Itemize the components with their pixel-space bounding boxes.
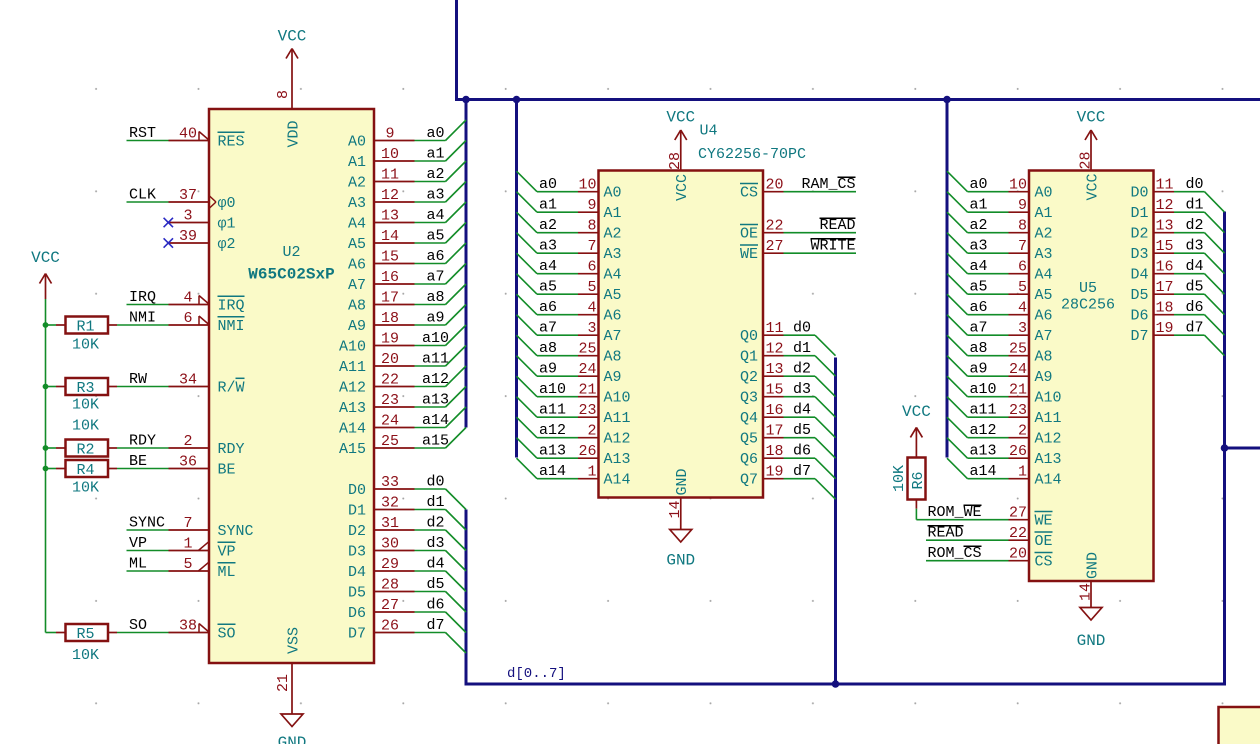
bus junction at (947,99.5) xyxy=(943,96,951,104)
svg-text:d6: d6 xyxy=(1185,299,1203,316)
svg-text:CY62256-70PC: CY62256-70PC xyxy=(698,146,806,163)
bus entry d5 to d-bus xyxy=(446,592,467,613)
pin 7 (SYNC) of U2 xyxy=(169,515,254,540)
bus a[0..15] vertical from top edge xyxy=(457,0,467,100)
net label a0 at U4 xyxy=(539,176,557,193)
pin 26 (A13) of U5 xyxy=(1009,443,1062,468)
svg-text:a11: a11 xyxy=(422,351,449,368)
wire R6 to ROM_WE xyxy=(915,509,917,520)
svg-text:U2: U2 xyxy=(282,244,300,261)
power symbol VCC above R6 xyxy=(902,403,931,458)
svg-text:12: 12 xyxy=(1156,197,1174,214)
svg-text:8: 8 xyxy=(587,218,596,235)
svg-text:A6: A6 xyxy=(348,257,366,274)
bus entry d4 from U5 xyxy=(1205,274,1225,295)
power symbol VCC above U4 xyxy=(666,109,695,151)
bus entry a6 to a-bus xyxy=(446,243,467,264)
wire a11 from U2 xyxy=(415,365,446,367)
pin 9 (A1) of U4 xyxy=(578,197,622,222)
wire d0 from U5 xyxy=(1174,191,1205,193)
wire a7 to U4 xyxy=(537,334,578,336)
svg-text:OE: OE xyxy=(1035,533,1053,550)
svg-text:IRQ: IRQ xyxy=(218,298,245,315)
net label CLK xyxy=(129,187,156,204)
svg-text:A0: A0 xyxy=(604,185,622,202)
wire a7 from U2 xyxy=(415,283,446,285)
pin 11 (Q0) of U4 xyxy=(740,320,784,345)
pin 1 (A14) of U5 xyxy=(1009,464,1062,489)
net label a4 at U5 xyxy=(970,258,988,275)
net label a0 at U5 xyxy=(970,176,988,193)
svg-text:10K: 10K xyxy=(72,337,99,354)
bus vertical d-bus right of U4 xyxy=(834,358,837,685)
svg-text:13: 13 xyxy=(381,208,399,225)
svg-text:a4: a4 xyxy=(426,207,444,224)
pin 8 (VDD) of U2 xyxy=(275,69,302,148)
bus horizontal top rail xyxy=(455,98,1260,101)
wire ROM_WE xyxy=(916,519,1008,521)
svg-text:7: 7 xyxy=(1018,238,1027,255)
wire d2 from U4 xyxy=(784,375,816,377)
svg-text:6: 6 xyxy=(1018,259,1027,276)
net label a1 at U5 xyxy=(970,197,988,214)
svg-text:READ: READ xyxy=(819,217,855,234)
wire a2 from U2 xyxy=(415,181,446,183)
svg-text:U4: U4 xyxy=(700,123,718,140)
pin 39 (φ2) of U2 xyxy=(169,228,236,253)
wire SYNC xyxy=(127,529,169,531)
bus entry a3 to U4 xyxy=(517,233,538,254)
svg-text:28: 28 xyxy=(667,152,684,170)
bus entry a5 to U5 xyxy=(947,274,968,295)
svg-text:VP: VP xyxy=(129,535,147,552)
wire R4 to U2 BE xyxy=(117,468,169,470)
svg-text:10: 10 xyxy=(1009,177,1027,194)
svg-text:a1: a1 xyxy=(426,146,444,163)
power symbol VCC above U2 xyxy=(278,28,307,69)
svg-text:a11: a11 xyxy=(539,402,566,419)
resistor R6 10K xyxy=(891,458,927,509)
svg-text:D0: D0 xyxy=(348,482,366,499)
pin 3 (A7) of U4 xyxy=(578,320,622,345)
pin 2 (A12) of U5 xyxy=(1009,423,1062,448)
svg-text:A14: A14 xyxy=(1035,472,1062,489)
wire R2 to U2 RDY xyxy=(117,447,169,449)
svg-text:d[0..7]: d[0..7] xyxy=(507,666,566,682)
svg-text:a12: a12 xyxy=(422,371,449,388)
svg-text:d4: d4 xyxy=(793,402,811,419)
power symbol VCC above U5 xyxy=(1077,109,1106,151)
wire a6 from U2 xyxy=(415,263,446,265)
wire RAM_CS xyxy=(784,191,857,193)
svg-text:13: 13 xyxy=(1156,218,1174,235)
wire d5 from U2 xyxy=(415,591,446,593)
svg-text:RST: RST xyxy=(129,125,156,142)
pin 23 (A11) of U5 xyxy=(1009,402,1062,427)
resistor R1 10K xyxy=(56,317,117,354)
net label READ xyxy=(819,217,855,234)
svg-text:a5: a5 xyxy=(426,228,444,245)
bus entry a1 to a-bus xyxy=(446,141,467,162)
svg-text:22: 22 xyxy=(766,218,784,235)
svg-text:CLK: CLK xyxy=(129,187,156,204)
pin 28 (D5) of U2 xyxy=(348,577,415,602)
ground symbol below U2 xyxy=(278,704,307,744)
wire d5 from U5 xyxy=(1174,293,1205,295)
bus vertical d-bus right of U5 xyxy=(1223,212,1226,686)
svg-text:33: 33 xyxy=(381,474,399,491)
ground symbol below U5 xyxy=(1077,602,1106,651)
pin 24 (A9) of U5 xyxy=(1009,361,1053,386)
pin 7 (A3) of U4 xyxy=(578,238,622,263)
pin 12 (A3) of U2 xyxy=(348,187,415,212)
svg-text:R5: R5 xyxy=(76,626,94,643)
svg-text:4: 4 xyxy=(587,300,596,317)
bus entry a2 to a-bus xyxy=(446,161,467,182)
svg-text:A5: A5 xyxy=(1035,287,1053,304)
svg-text:2: 2 xyxy=(1018,423,1027,440)
svg-text:8: 8 xyxy=(1018,218,1027,235)
wire a3 from U2 xyxy=(415,201,446,203)
svg-text:a14: a14 xyxy=(422,412,449,429)
net label a12 xyxy=(422,371,449,388)
pin 40 (RES) of U2 xyxy=(169,126,245,151)
pin 13 (A4) of U2 xyxy=(348,208,415,233)
svg-text:A13: A13 xyxy=(339,400,366,417)
wire a4 from U2 xyxy=(415,222,446,224)
net label a5 at U4 xyxy=(539,279,557,296)
net label d7 at U4 xyxy=(793,463,811,480)
svg-text:a10: a10 xyxy=(539,381,566,398)
net label a6 xyxy=(426,248,444,265)
bus vertical a-bus left of U4 xyxy=(515,100,518,458)
net label d7 at U5 xyxy=(1185,320,1203,337)
svg-text:a2: a2 xyxy=(539,217,557,234)
svg-text:4: 4 xyxy=(183,290,192,307)
svg-text:16: 16 xyxy=(1156,259,1174,276)
svg-text:1: 1 xyxy=(1018,464,1027,481)
net label ROM_CS xyxy=(928,545,982,562)
pin 9 (A0) of U2 xyxy=(348,126,415,151)
net label a9 at U4 xyxy=(539,361,557,378)
partial component body bottom-right corner xyxy=(1219,707,1260,744)
net label NMI xyxy=(129,310,156,327)
bus vertical a-bus left of U2 entries xyxy=(465,100,468,428)
svg-text:A13: A13 xyxy=(604,451,631,468)
net label a11 at U5 xyxy=(970,402,997,419)
svg-text:10K: 10K xyxy=(72,418,99,435)
svg-text:ROM_CS: ROM_CS xyxy=(928,545,982,562)
svg-text:a1: a1 xyxy=(970,197,988,214)
net label a7 at U5 xyxy=(970,320,988,337)
svg-text:φ2: φ2 xyxy=(218,236,236,253)
net label READ xyxy=(928,525,964,542)
ground symbol below U4 xyxy=(666,518,695,570)
svg-text:12: 12 xyxy=(766,341,784,358)
svg-text:21: 21 xyxy=(1009,382,1027,399)
pin 19 (A10) of U2 xyxy=(339,331,415,356)
svg-text:A14: A14 xyxy=(604,472,631,489)
svg-text:7: 7 xyxy=(587,238,596,255)
pin 12 (D1) of U5 xyxy=(1130,197,1174,222)
svg-text:13: 13 xyxy=(766,361,784,378)
svg-text:a13: a13 xyxy=(539,443,566,460)
svg-text:a6: a6 xyxy=(970,299,988,316)
svg-text:d1: d1 xyxy=(793,340,811,357)
svg-text:a9: a9 xyxy=(539,361,557,378)
svg-text:6: 6 xyxy=(183,310,192,327)
bus entry a7 to a-bus xyxy=(446,264,467,285)
svg-text:A5: A5 xyxy=(348,236,366,253)
svg-text:A3: A3 xyxy=(1035,246,1053,263)
bus entry a8 to U4 xyxy=(517,335,538,356)
bus entry d3 from U4 xyxy=(815,397,836,418)
net label IRQ xyxy=(129,289,156,306)
resistor R2 10K xyxy=(56,418,117,459)
svg-text:d2: d2 xyxy=(1185,217,1203,234)
svg-text:24: 24 xyxy=(1009,361,1027,378)
svg-text:23: 23 xyxy=(1009,402,1027,419)
svg-text:d2: d2 xyxy=(793,361,811,378)
svg-text:20: 20 xyxy=(1009,546,1027,563)
wire a1 from U2 xyxy=(415,160,446,162)
pin 14 (GND) of U5 xyxy=(1077,552,1101,602)
svg-text:d4: d4 xyxy=(1185,258,1203,275)
svg-text:D6: D6 xyxy=(348,605,366,622)
svg-text:21: 21 xyxy=(275,674,292,692)
svg-text:A4: A4 xyxy=(348,216,366,233)
wire a13 to U5 xyxy=(968,457,1009,459)
svg-text:12: 12 xyxy=(381,187,399,204)
net label d2 xyxy=(426,515,444,532)
svg-text:a12: a12 xyxy=(539,422,566,439)
svg-text:SO: SO xyxy=(129,617,147,634)
svg-text:VCC: VCC xyxy=(31,249,60,267)
wire ROM_CS xyxy=(926,560,1009,562)
net label a12 at U4 xyxy=(539,422,566,439)
pin 29 (D4) of U2 xyxy=(348,556,415,581)
svg-text:26: 26 xyxy=(1009,443,1027,460)
svg-text:A9: A9 xyxy=(348,318,366,335)
svg-text:d0: d0 xyxy=(426,474,444,491)
svg-text:a7: a7 xyxy=(539,320,557,337)
bus entry a2 to U4 xyxy=(517,212,538,233)
svg-text:GND: GND xyxy=(278,734,307,744)
svg-text:A11: A11 xyxy=(339,359,366,376)
value CY62256-70PC xyxy=(698,146,806,163)
svg-text:A11: A11 xyxy=(1035,410,1062,427)
wire a7 to U5 xyxy=(968,334,1009,336)
net label a9 xyxy=(426,310,444,327)
bus entry d4 from U4 xyxy=(815,417,836,438)
svg-text:a0: a0 xyxy=(539,176,557,193)
svg-text:A11: A11 xyxy=(604,410,631,427)
svg-text:A5: A5 xyxy=(604,287,622,304)
svg-text:d3: d3 xyxy=(426,535,444,552)
net label a14 at U4 xyxy=(539,463,566,480)
pin 18 (A9) of U2 xyxy=(348,310,415,335)
pin 5 (ML) of U2 xyxy=(169,556,236,581)
svg-text:READ: READ xyxy=(928,525,964,542)
net label a9 at U5 xyxy=(970,361,988,378)
wire a8 to U4 xyxy=(537,355,578,357)
net label d5 xyxy=(426,576,444,593)
pin 36 (BE) of U2 xyxy=(169,454,236,479)
net label a2 xyxy=(426,166,444,183)
net label d0 at U5 xyxy=(1185,176,1203,193)
wire d1 from U2 xyxy=(415,509,446,511)
svg-text:A7: A7 xyxy=(604,328,622,345)
svg-text:R1: R1 xyxy=(76,318,94,335)
bus entry a5 to a-bus xyxy=(446,223,467,244)
svg-text:A8: A8 xyxy=(348,298,366,315)
svg-text:A2: A2 xyxy=(604,226,622,243)
net label a11 xyxy=(422,351,449,368)
svg-text:ML: ML xyxy=(129,556,147,573)
net label a3 at U4 xyxy=(539,238,557,255)
bus vertical a-bus left of U5 xyxy=(946,100,949,458)
pin 30 (D3) of U2 xyxy=(348,536,415,561)
svg-text:A0: A0 xyxy=(1035,185,1053,202)
bus entry d6 to d-bus xyxy=(446,612,467,633)
bus entry a3 to U5 xyxy=(947,233,968,254)
net label a5 xyxy=(426,228,444,245)
net label a1 xyxy=(426,146,444,163)
pin 34 (R/W) of U2 xyxy=(169,372,245,397)
wire VP xyxy=(127,550,169,552)
svg-text:d7: d7 xyxy=(426,617,444,634)
resistor R3 10K xyxy=(56,378,117,414)
svg-text:Q6: Q6 xyxy=(740,451,758,468)
svg-text:38: 38 xyxy=(179,618,197,635)
bus entry d0 from U4 xyxy=(815,335,836,356)
svg-text:A4: A4 xyxy=(1035,267,1053,284)
svg-text:A0: A0 xyxy=(348,134,366,151)
wire a12 to U4 xyxy=(537,437,578,439)
bus entry d3 from U5 xyxy=(1205,253,1225,274)
svg-text:5: 5 xyxy=(183,556,192,573)
bus entry a15 to a-bus xyxy=(446,428,467,449)
wire a6 to U4 xyxy=(537,314,578,316)
svg-text:1: 1 xyxy=(587,464,596,481)
bus junction at (516.5,99.5) xyxy=(513,96,521,104)
pin 16 (D4) of U5 xyxy=(1130,259,1174,284)
svg-text:7: 7 xyxy=(183,515,192,532)
wire CLK xyxy=(127,201,169,203)
bus entry a14 to U5 xyxy=(947,458,968,479)
wire a9 from U2 xyxy=(415,324,446,326)
net label WRITE xyxy=(810,238,855,255)
junction at rail R4 xyxy=(43,466,49,472)
pin 10 (A0) of U5 xyxy=(1009,177,1053,202)
svg-text:A13: A13 xyxy=(1035,451,1062,468)
pin 2 (RDY) of U2 xyxy=(169,433,245,458)
svg-text:14: 14 xyxy=(381,228,399,245)
svg-text:IRQ: IRQ xyxy=(129,289,156,306)
svg-text:a1: a1 xyxy=(539,197,557,214)
svg-text:d1: d1 xyxy=(426,494,444,511)
svg-text:26: 26 xyxy=(381,618,399,635)
svg-text:a9: a9 xyxy=(426,310,444,327)
junction at rail R1 xyxy=(43,322,49,328)
svg-text:31: 31 xyxy=(381,515,399,532)
svg-text:28: 28 xyxy=(1077,151,1094,169)
svg-text:2: 2 xyxy=(587,423,596,440)
bus entry a4 to U5 xyxy=(947,253,968,274)
net label a10 at U5 xyxy=(970,381,997,398)
wire d6 from U2 xyxy=(415,611,446,613)
net label a6 at U4 xyxy=(539,299,557,316)
bus entry a4 to U4 xyxy=(517,253,538,274)
wire a11 to U5 xyxy=(968,416,1009,418)
bus entry a8 to U5 xyxy=(947,335,968,356)
svg-text:U5: U5 xyxy=(1079,280,1097,297)
bus entry d2 to d-bus xyxy=(446,530,467,551)
svg-text:23: 23 xyxy=(381,392,399,409)
wire d4 from U5 xyxy=(1174,273,1205,275)
wire d0 from U4 xyxy=(784,334,816,336)
svg-text:a0: a0 xyxy=(426,125,444,142)
wire d2 from U5 xyxy=(1174,232,1205,234)
net label a8 at U5 xyxy=(970,340,988,357)
pin 21 (A10) of U4 xyxy=(578,382,631,407)
wire rail to R4 xyxy=(46,468,57,470)
net label a7 at U4 xyxy=(539,320,557,337)
wire a13 from U2 xyxy=(415,406,446,408)
net label a3 xyxy=(426,187,444,204)
net label a0 xyxy=(426,125,444,142)
pin 20 (CS) of U5 xyxy=(1009,546,1053,571)
svg-text:R3: R3 xyxy=(76,380,94,397)
svg-text:A4: A4 xyxy=(604,267,622,284)
svg-text:A12: A12 xyxy=(1035,431,1062,448)
bus entry a4 to a-bus xyxy=(446,202,467,223)
pin 14 (GND) of U4 xyxy=(667,468,691,518)
svg-text:9: 9 xyxy=(587,197,596,214)
pin 25 (A8) of U5 xyxy=(1009,341,1053,366)
net label d1 xyxy=(426,494,444,511)
bus entry d3 to d-bus xyxy=(446,551,467,572)
svg-text:a14: a14 xyxy=(539,463,566,480)
svg-text:25: 25 xyxy=(578,341,596,358)
wire a10 from U2 xyxy=(415,345,446,347)
svg-text:R6: R6 xyxy=(910,471,927,489)
bus entry a8 to a-bus xyxy=(446,284,467,305)
pin 20 (A11) of U2 xyxy=(339,351,415,376)
wire a5 to U5 xyxy=(968,293,1009,295)
svg-text:D1: D1 xyxy=(1130,205,1148,222)
svg-text:34: 34 xyxy=(179,372,197,389)
pin 22 (OE) of U5 xyxy=(1009,525,1053,550)
wire a3 to U4 xyxy=(537,252,578,254)
svg-text:VCC: VCC xyxy=(278,28,307,46)
svg-text:27: 27 xyxy=(1009,505,1027,522)
svg-text:d5: d5 xyxy=(793,422,811,439)
svg-text:D7: D7 xyxy=(348,626,366,643)
wire d4 from U2 xyxy=(415,570,446,572)
svg-text:SYNC: SYNC xyxy=(218,523,254,540)
svg-text:a10: a10 xyxy=(422,330,449,347)
svg-text:GND: GND xyxy=(1084,552,1101,579)
net label a15 xyxy=(422,433,449,450)
svg-text:A1: A1 xyxy=(1035,205,1053,222)
svg-text:11: 11 xyxy=(381,167,399,184)
svg-text:29: 29 xyxy=(381,556,399,573)
pin 4 (A6) of U4 xyxy=(578,300,622,325)
svg-text:φ0: φ0 xyxy=(218,195,236,212)
svg-text:40: 40 xyxy=(179,126,197,143)
wire a10 to U5 xyxy=(968,396,1009,398)
